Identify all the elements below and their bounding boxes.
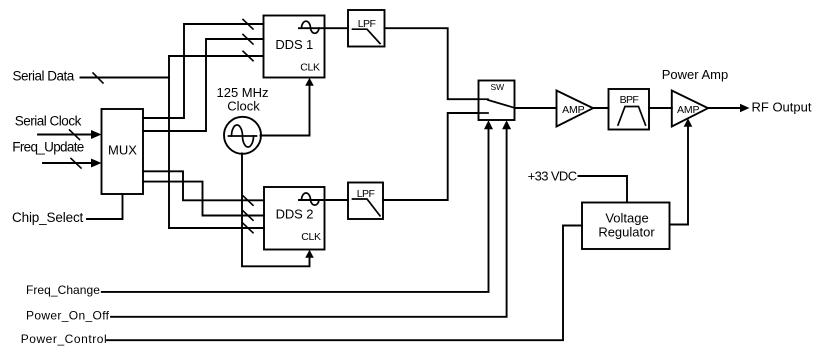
wire DDS1 output to LPF bbox=[299, 27, 348, 29]
svg-text:SW: SW bbox=[490, 82, 504, 92]
arrowhead RF Output bbox=[740, 104, 750, 113]
svg-text:MUX: MUX bbox=[108, 143, 137, 158]
power amplifier AMP2 triangle bbox=[672, 91, 708, 127]
BPF filter icon bbox=[618, 107, 646, 126]
arrowhead into MUX (Serial Clock) bbox=[91, 130, 102, 139]
svg-text:BPF: BPF bbox=[620, 94, 639, 106]
svg-text:RF Output: RF Output bbox=[752, 99, 812, 114]
LPF2 box bbox=[348, 183, 383, 220]
svg-text:Serial Data: Serial Data bbox=[13, 68, 75, 83]
wire Serial Data horizontal bbox=[81, 77, 170, 79]
wire Freq_Update input bbox=[43, 162, 93, 164]
bus slash Serial Clock bbox=[70, 130, 80, 140]
svg-text:LPF: LPF bbox=[357, 188, 375, 200]
sine symbol DDS2 bbox=[302, 193, 320, 205]
svg-text:Power_Control: Power_Control bbox=[21, 332, 108, 346]
svg-text:Freq_Change: Freq_Change bbox=[26, 283, 100, 297]
svg-text:CLK: CLK bbox=[300, 62, 320, 74]
bus slash DDS1 line2 bbox=[243, 35, 253, 45]
bus slash DDS1 line3 bbox=[243, 51, 253, 61]
wire +33 VDC to regulator bbox=[579, 176, 628, 203]
BPF box bbox=[609, 89, 650, 130]
bus slash Freq_Update bbox=[71, 159, 81, 169]
DDS1 box bbox=[264, 16, 325, 78]
arrowhead into MUX (Freq_Update) bbox=[91, 159, 102, 168]
wire MUX out4 to DDS2 bbox=[143, 182, 264, 216]
svg-text:LPF: LPF bbox=[358, 18, 376, 30]
wire BPF to AMP2 bbox=[649, 107, 672, 109]
bus slash DDS2 line1 bbox=[243, 196, 253, 206]
svg-text:AMP: AMP bbox=[677, 104, 700, 116]
MUX box bbox=[102, 109, 144, 194]
arrowhead SW control left bbox=[484, 120, 493, 129]
svg-text:Power_On_Off: Power_On_Off bbox=[26, 309, 110, 323]
wire DDS1 data line bbox=[169, 55, 264, 57]
wire LPF2 to SW bbox=[383, 113, 479, 200]
LPF1 box bbox=[348, 10, 385, 47]
wire AMP2 to RF Output bbox=[708, 107, 741, 109]
svg-text:Serial Clock: Serial Clock bbox=[15, 113, 82, 128]
wire MUX out3 to DDS2 bbox=[143, 171, 264, 200]
bus slash DDS2 line3 bbox=[243, 223, 253, 233]
arrowhead DDS1 CLK bbox=[305, 78, 314, 86]
wire voltage regulator to AMP2 bbox=[670, 126, 689, 225]
bus slash DDS2 line2 bbox=[243, 211, 253, 221]
125 MHz clock circle bbox=[224, 117, 261, 154]
svg-text:+33 VDC: +33 VDC bbox=[528, 169, 577, 184]
wire MUX out2 to DDS1 bbox=[143, 39, 264, 131]
wire AMP1 to BPF bbox=[593, 107, 609, 109]
amplifier AMP1 triangle bbox=[557, 91, 594, 127]
wire MUX out1 to DDS1 bbox=[143, 24, 264, 118]
wire Power_On_Off to SW bbox=[111, 129, 507, 317]
svg-text:DDS 1: DDS 1 bbox=[275, 37, 313, 52]
wire Power_Control to regulator bbox=[107, 226, 582, 341]
svg-text:Freq_Update: Freq_Update bbox=[12, 140, 83, 155]
wire clock to DDS1 CLK bbox=[261, 84, 310, 136]
LPF1 filter icon bbox=[353, 29, 381, 43]
DDS2 box bbox=[264, 187, 325, 250]
wire DDS2 data line bbox=[169, 227, 264, 229]
svg-text:Clock: Clock bbox=[227, 99, 260, 114]
svg-text:Voltage: Voltage bbox=[605, 211, 648, 226]
wire Serial Clock input bbox=[38, 134, 93, 136]
svg-text:Power Amp: Power Amp bbox=[662, 67, 728, 82]
SW box bbox=[479, 81, 515, 121]
wire Freq_Change to SW bbox=[102, 129, 489, 292]
wire clock to DDS2 CLK bbox=[242, 154, 310, 267]
bus slash DDS1 line1 bbox=[243, 20, 253, 30]
wire LPF1 to SW bbox=[385, 28, 479, 99]
SW switch lever bbox=[479, 98, 489, 100]
svg-text:Chip_Select: Chip_Select bbox=[12, 210, 84, 225]
arrowhead SW control right bbox=[502, 120, 511, 129]
wire Chip_Select bbox=[87, 194, 123, 219]
svg-text:Regulator: Regulator bbox=[598, 225, 655, 240]
sine symbol clock oscillator bbox=[229, 135, 257, 137]
wire Serial Data vertical bus bbox=[168, 56, 170, 228]
wire SW output to AMP1 bbox=[515, 107, 557, 109]
voltage regulator box bbox=[582, 203, 670, 250]
wire DDS2 output to LPF bbox=[299, 199, 348, 201]
svg-text:AMP: AMP bbox=[562, 104, 585, 116]
LPF2 filter icon bbox=[353, 199, 381, 216]
arrowhead AMP2 control bbox=[684, 118, 693, 127]
svg-text:DDS 2: DDS 2 bbox=[276, 207, 314, 222]
sine symbol DDS1 bbox=[302, 21, 320, 33]
bus slash Serial Data bbox=[93, 73, 103, 83]
svg-text:CLK: CLK bbox=[301, 231, 321, 243]
arrowhead DDS2 CLK bbox=[305, 250, 314, 258]
